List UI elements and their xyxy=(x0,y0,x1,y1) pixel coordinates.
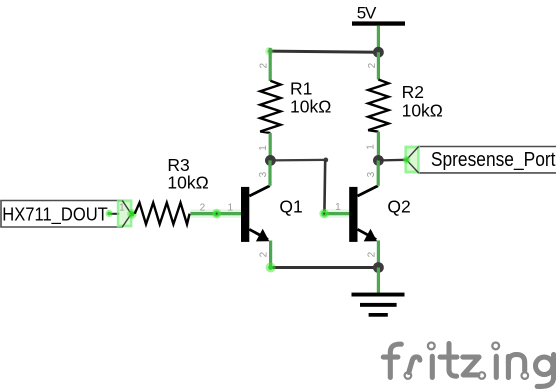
wire junction B to node C xyxy=(270,159,325,162)
svg-text:Q1: Q1 xyxy=(279,196,302,216)
label R3 value xyxy=(167,155,208,193)
svg-text:2: 2 xyxy=(367,251,378,257)
wire node C down to Q2 base xyxy=(323,160,326,214)
wire 5V bar to junction A xyxy=(377,26,380,53)
wire junction E to ground xyxy=(377,268,380,295)
wire Q1 emitter to ground junction xyxy=(271,266,379,269)
svg-text:1: 1 xyxy=(335,202,341,213)
pad Spresense pin xyxy=(403,146,420,174)
wire R3 to Q1 base xyxy=(190,209,241,217)
power rail 5V bar xyxy=(352,21,405,25)
svg-text:2: 2 xyxy=(259,251,270,257)
svg-text:2: 2 xyxy=(200,202,206,213)
transistor Q1 xyxy=(241,160,271,267)
svg-text:HX711_DOUT: HX711_DOUT xyxy=(2,203,108,225)
svg-text:10kΩ: 10kΩ xyxy=(290,97,331,117)
svg-text:R2: R2 xyxy=(402,82,424,102)
svg-text:3: 3 xyxy=(366,171,377,177)
bendpoint glow Q2 base xyxy=(319,209,329,219)
wire node C to Q2 base bar xyxy=(324,209,349,217)
label R2 value xyxy=(402,82,443,121)
svg-text:Spresense_Port: Spresense_Port xyxy=(431,149,556,171)
bendpoint glow top-left xyxy=(265,47,273,55)
net label Spresense_Port xyxy=(406,147,556,173)
node C small dot xyxy=(323,158,328,163)
svg-text:1: 1 xyxy=(258,145,269,151)
svg-text:2: 2 xyxy=(367,62,378,68)
bendpoint glow R3/Q1 xyxy=(212,209,222,219)
svg-text:3: 3 xyxy=(258,171,269,177)
svg-text:1: 1 xyxy=(119,203,125,214)
svg-text:2: 2 xyxy=(259,63,270,69)
svg-text:1: 1 xyxy=(228,203,234,214)
svg-text:R1: R1 xyxy=(290,78,312,98)
svg-text:10kΩ: 10kΩ xyxy=(402,101,443,121)
ground symbol xyxy=(352,293,405,317)
transistor Q2 xyxy=(349,160,378,267)
junction dot D (R2 / Q2 collector / output) xyxy=(373,155,384,166)
label R1 value xyxy=(290,78,331,116)
fritzing watermark logo xyxy=(383,343,553,387)
wire top rail R1 to junction A xyxy=(270,51,379,52)
resistor R1 xyxy=(260,48,280,160)
pad HX711 pin xyxy=(106,199,137,227)
resistor R3 xyxy=(135,203,190,225)
svg-text:10kΩ: 10kΩ xyxy=(167,172,208,192)
resistor R2 xyxy=(368,52,388,160)
bendpoint glow emitter wire xyxy=(266,263,276,273)
junction dot B (R1 / Q1 collector) xyxy=(265,155,276,166)
wire junction D to output label xyxy=(378,159,406,162)
junction dot E (emitters / ground) xyxy=(373,262,384,273)
svg-text:5V: 5V xyxy=(357,4,377,23)
svg-text:Q2: Q2 xyxy=(387,196,410,216)
junction dot A (5V / R2) xyxy=(373,47,384,58)
svg-text:1: 1 xyxy=(366,144,377,150)
net label HX711_DOUT xyxy=(1,201,131,228)
